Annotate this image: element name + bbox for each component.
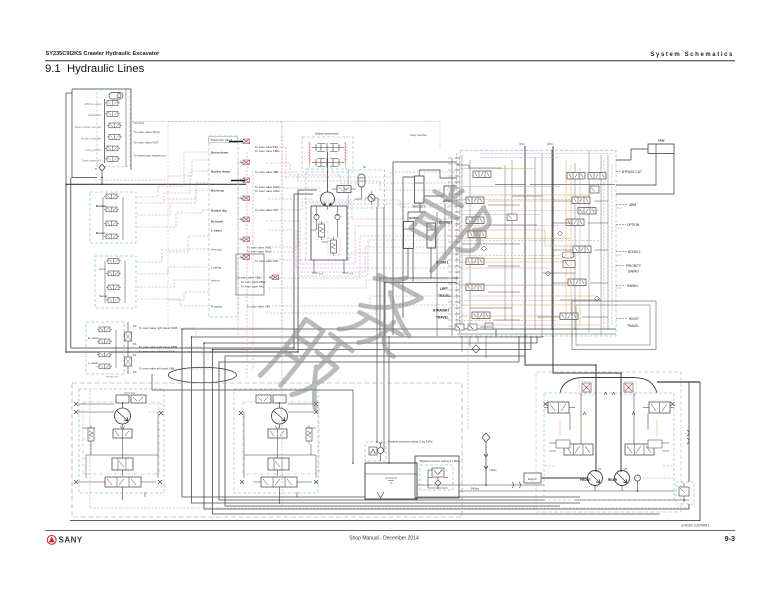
pump B circle: [272, 403, 288, 428]
svg-text:SWING: SWING: [628, 270, 639, 274]
svg-text:REAR: REAR: [608, 478, 618, 482]
anti-reverse relief A: [319, 221, 325, 240]
hose crossing arcs: [687, 430, 689, 444]
svg-text:To main valve 5b(p): To main valve 5b(p): [134, 130, 160, 134]
svg-text:A8V0 200: A8V0 200: [124, 392, 136, 395]
svg-text:SY235C9I2KS Crawler Hydraulic: SY235C9I2KS Crawler Hydraulic Excavator: [46, 51, 161, 57]
svg-text:To main valve PuP: To main valve PuP: [134, 141, 159, 145]
main valve spool boom2: [573, 246, 591, 253]
swing shaft vertical: [327, 152, 329, 192]
front servo spool: [549, 440, 593, 455]
rear servo spool: [625, 440, 669, 455]
travel cluster internal rail: [115, 330, 117, 368]
pink top row right block: [480, 154, 612, 158]
pilot mesh c1 line4: [137, 210, 209, 227]
svg-text:L swing: L swing: [211, 266, 221, 270]
svg-text:Boom: Boom: [96, 231, 105, 235]
main valve mid gallery horizontals: [457, 165, 615, 308]
main valve left port stubs: [455, 158, 461, 326]
pump A port X marks: [74, 402, 78, 406]
watermark char WU (affairs): [339, 263, 435, 364]
svg-text:swivel joint: swivel joint: [106, 375, 119, 379]
pump group A boundary: [79, 389, 164, 493]
svg-text:Swing priority: Swing priority: [85, 148, 101, 152]
bold pilot stub 2: [231, 180, 245, 182]
travel pump outer dash boundary: [536, 372, 681, 512]
swing casing red hatch right: [344, 142, 347, 167]
cluster1 pilot valves: [104, 194, 119, 199]
svg-text:System Schematics: System Schematics: [650, 52, 734, 58]
svg-text:P: P: [95, 167, 97, 171]
travel filter lower: [125, 357, 132, 366]
internal connect stubs: [488, 201, 608, 320]
svg-text:ARV line valve: ARV line valve: [84, 102, 101, 106]
right travel inner box: [576, 305, 650, 345]
swing motor circle: [321, 192, 335, 206]
main valve spool straight travel: [472, 312, 490, 319]
manifold internal vertical rail: [104, 99, 106, 163]
breather cyan box: [365, 442, 386, 461]
pilot mesh c2 line3: [137, 280, 209, 287]
travel cluster pilot valves: [97, 327, 112, 332]
travel pump bottom rails: [544, 481, 689, 500]
svg-text:P4: P4: [133, 342, 137, 346]
orange pilot gallery 4: [459, 284, 568, 286]
SANY logo emblem: [47, 536, 56, 545]
svg-text:PRIORITY: PRIORITY: [626, 264, 642, 268]
header rule: [45, 60, 735, 62]
watermark char BU (department): [394, 177, 498, 285]
svg-text:Bypass pressure setting 0.1 MP: Bypass pressure setting 0.1 MPa: [420, 459, 460, 463]
engine drive shaft: [541, 477, 588, 479]
svg-text:STRAIGHT: STRAIGHT: [433, 309, 449, 313]
secondary right vertical: [688, 382, 690, 509]
rail b to swing hose: [71, 347, 294, 349]
pilot return long bottom: [90, 507, 689, 509]
pump B bottom spool: [253, 477, 312, 487]
pilot mesh to valve 6: [268, 253, 457, 260]
svg-text:Swing mechanism: Swing mechanism: [315, 132, 340, 136]
tank return riser: [152, 336, 389, 463]
horizontal capsule boom2 aux: [562, 252, 574, 258]
priority valve small: [563, 261, 575, 268]
solenoid valve row 1: [105, 101, 120, 106]
svg-text:ARM: ARM: [629, 203, 636, 207]
bypass cyan box: [420, 465, 453, 490]
pilot mesh c1 line1: [137, 152, 209, 197]
main valve spool left travel: [466, 284, 484, 291]
svg-text:Arm out: Arm out: [211, 248, 222, 252]
orange pilot vertical a: [565, 160, 567, 320]
cluster2 pilot valves: [106, 259, 121, 264]
swing return lines to tank: [377, 207, 384, 452]
front pump circle: [588, 471, 603, 486]
footer rule: [45, 529, 735, 531]
solenoid valve row 6: [105, 157, 120, 162]
rear pump circle: [615, 471, 630, 486]
pump A port lines: [78, 404, 114, 428]
svg-text:To main valve left travel XAtL: To main valve left travel XAtL: [139, 350, 176, 354]
svg-text:To main valve XBb2: To main valve XBb2: [255, 149, 280, 153]
pump group A magenta box: [83, 402, 159, 474]
svg-text:L. travel: L. travel: [88, 361, 98, 365]
bold pilot stub 1: [229, 141, 243, 143]
small fitting cluster above cascade: [455, 324, 492, 330]
pilot mesh travel lines: [185, 328, 214, 369]
extra feed verticals: [437, 158, 452, 336]
svg-text:Shop Manual - December 2014: Shop Manual - December 2014: [349, 536, 419, 542]
pilot vertical bottom left: [89, 390, 91, 508]
svg-text:L travel: L travel: [211, 229, 222, 233]
pump B servo piston: [268, 458, 289, 470]
orange travel pump drops: [560, 416, 657, 440]
svg-text:Z4239-1309001: Z4239-1309001: [681, 523, 710, 528]
svg-text:Swing: Swing: [99, 294, 108, 298]
pilot cluster 1 boundary (bucket/boom): [90, 192, 136, 243]
svg-text:(P1): (P1): [519, 142, 525, 146]
svg-text:FRONT: FRONT: [580, 478, 591, 482]
pilot mesh to valve 2: [266, 172, 457, 190]
orange pilot gallery 5: [459, 315, 560, 317]
shuttle header box: [209, 137, 238, 143]
pilot vertical mid: [467, 336, 469, 430]
svg-text:Travel speed sW: Travel speed sW: [82, 159, 102, 163]
svg-text:ARM: ARM: [658, 139, 665, 143]
swing relief small circle: [368, 191, 375, 205]
solenoid valve row 4: [107, 135, 122, 140]
svg-text:To main valve XBa2: To main valve XBa2: [237, 276, 262, 280]
port relief right: [335, 214, 340, 223]
extra pilot meanders: [266, 163, 457, 183]
pump A drain down: [123, 487, 146, 500]
breather valve: [369, 442, 384, 461]
orange horizontals in valve: [460, 169, 600, 326]
pilot mesh to valve 7: [280, 268, 457, 278]
manifold feed vertical: [65, 93, 67, 184]
return rail vertical: [551, 150, 553, 330]
pump B top rects: [256, 395, 286, 403]
boom cylinder right: [427, 223, 436, 248]
svg-text:LEFT: LEFT: [440, 287, 448, 291]
port label marks: [448, 158, 453, 326]
bypass to travel pump line: [459, 490, 544, 492]
travel pump block arch: [560, 378, 657, 394]
pink rows in main valve: [460, 160, 612, 330]
pump B regulator valve: [268, 426, 287, 438]
travel hose cascade line 2: [192, 337, 581, 503]
shuttle valve block boundary: [209, 136, 238, 317]
svg-text:9-3: 9-3: [725, 534, 735, 543]
cluster1 internal rail: [103, 197, 123, 240]
extra small checks in main valve: [482, 231, 600, 301]
svg-text:R. travel: R. travel: [88, 336, 99, 340]
travel pair drops: [380, 278, 385, 336]
svg-text:BOOM 2: BOOM 2: [628, 250, 641, 254]
pump B port X marks: [314, 402, 318, 406]
inner gallery verticals: [462, 150, 608, 336]
svg-text:To main valve XBa2: To main valve XBa2: [241, 280, 266, 284]
svg-text:P2: P2: [133, 370, 137, 374]
left vertical rail a: [65, 184, 67, 352]
svg-text:Boom priority over soft: Boom priority over soft: [75, 125, 101, 129]
filter column: [482, 433, 490, 485]
main valve spool boom1: [466, 258, 484, 265]
pilot bottom travel links: [545, 466, 674, 478]
svg-text:Bucket lvl handle: Bucket lvl handle: [81, 137, 101, 141]
main valve spool right travel: [560, 313, 578, 320]
rear regulator: [643, 402, 675, 413]
port relief left: [314, 214, 319, 223]
orange pilot gallery 3: [459, 261, 563, 263]
small rect bottom left: [485, 323, 493, 329]
pilot bottom pump A links: [82, 404, 162, 440]
svg-text:To main valve XAs: To main valve XAs: [255, 259, 279, 263]
main valve spool option: [566, 219, 584, 226]
check diamond under manifold: [99, 164, 105, 184]
pilot cluster 2 boundary (arm/swing): [95, 256, 136, 308]
travel pump cyan boundary: [544, 393, 674, 500]
cascade feeders from main valve bottom: [496, 329, 543, 362]
cluster2 internal rail: [105, 261, 125, 303]
watermark char FU (serve): [260, 314, 354, 411]
pump B mid lines: [244, 412, 316, 478]
swivel joint ellipse: [168, 367, 236, 382]
svg-text:OPTION: OPTION: [627, 223, 640, 227]
svg-text:P3: P3: [133, 324, 137, 328]
svg-text:To main valve 3Aa2: To main valve 3Aa2: [247, 250, 272, 254]
solenoid valve row 2: [105, 112, 120, 117]
orange pilot gallery 2: [459, 230, 573, 246]
pump A mid lines: [86, 412, 158, 478]
swing hose vertical: [294, 190, 298, 352]
svg-text:Boom up: Boom up: [211, 189, 224, 193]
front pump pilot valve w/ red: [579, 381, 594, 395]
travel lines pair to main valve: [380, 278, 457, 283]
svg-text:R swing: R swing: [211, 305, 222, 309]
pump A relief capsule: [88, 425, 94, 444]
pump feed vertical P2: [552, 146, 554, 336]
swing motor cyan boundary: [306, 169, 348, 260]
hydraulic tank: [365, 463, 417, 499]
svg-text:Arm in: Arm in: [211, 279, 220, 283]
swing motor drain stubs: [312, 260, 348, 273]
pink verticals at valve left edge: [457, 153, 460, 333]
pump A circle: [115, 403, 131, 428]
svg-text:5b: 5b: [363, 165, 367, 169]
svg-text:To:Pu(t): To:Pu(t): [134, 121, 145, 125]
left feed vertical x403: [403, 177, 415, 318]
diagram bottom border: [70, 382, 700, 521]
svg-text:Boom down: Boom down: [211, 151, 228, 155]
pilot mesh to valve 8: [268, 296, 457, 306]
bottom right unit valve: [679, 483, 689, 502]
swing gear shaft upper: [312, 143, 344, 152]
pump P1 feed to front pump: [525, 336, 596, 365]
left vertical rail b: [70, 178, 72, 349]
ARM cylinder top right: [648, 144, 674, 154]
svg-text:RIGHT: RIGHT: [629, 317, 639, 321]
left feed vertical x393: [393, 162, 457, 335]
svg-text:To main valve Pa1: To main valve Pa1: [241, 285, 264, 289]
svg-text:BYPASS CUT: BYPASS CUT: [622, 170, 642, 174]
pump group B boundary: [234, 389, 318, 493]
svg-text:BUCKET: BUCKET: [413, 205, 426, 209]
svg-text:To main valve XBs: To main valve XBs: [247, 305, 271, 309]
main valve spool top left: [473, 171, 491, 178]
svg-text:P2: P2: [624, 467, 628, 471]
main valve spool arm2: [466, 197, 484, 204]
gauge circle: [635, 475, 641, 481]
pump feed vertical P1: [524, 146, 526, 336]
anti-reverse relief B: [331, 237, 337, 256]
svg-text:9.1 Hydraulic Lines: 9.1 Hydraulic Lines: [45, 63, 145, 75]
swing valve cyan boundary right: [349, 170, 385, 208]
pilot trunk vertical: [281, 122, 283, 506]
accumulator: [358, 174, 365, 193]
valve-to-travel check diamond: [472, 345, 480, 353]
pump group B magenta box: [243, 402, 319, 474]
rear pump pilot valve w/ red: [621, 381, 636, 395]
travel hose cascade line 3: [204, 343, 689, 509]
main valve bottom stub lines: [462, 336, 486, 358]
svg-text:Breather pressure setting: 0 k: Breather pressure setting: 0 kg 3 kPa: [388, 440, 433, 444]
svg-text:SWING: SWING: [627, 284, 638, 288]
front regulator: [544, 402, 576, 413]
travel filter upper: [125, 332, 132, 341]
pilot mesh to valve 5: [268, 240, 457, 276]
pilot drop cluster1: [238, 152, 253, 378]
right travel outer box: [572, 301, 656, 350]
pilot mesh to valve 3: [268, 188, 457, 207]
svg-text:Arm: Arm: [99, 267, 105, 271]
pump B port lines: [288, 404, 316, 428]
pump A servo piston: [112, 458, 133, 470]
pilot mesh to valve 4: [266, 202, 457, 219]
pump P2 feed to rear pump: [553, 336, 621, 373]
swing hose horizontal to motor: [294, 190, 317, 194]
travel hose cascade line 4: [213, 350, 660, 515]
svg-text:Sway switches: Sway switches: [410, 133, 428, 137]
swing brake valve: [332, 186, 356, 193]
main control valve cyan boundary: [460, 150, 616, 336]
travel pump inner risers: [570, 392, 648, 445]
travel pump main verticals: [596, 365, 621, 471]
pilot mesh c1 line2: [137, 171, 209, 203]
svg-text:P1: P1: [133, 353, 137, 357]
swing pilot connections: [344, 189, 378, 207]
svg-text:TRAVEL: TRAVEL: [436, 316, 449, 320]
pilot mesh c1 line3: [137, 190, 209, 215]
orange pilot gallery 1: [459, 200, 572, 201]
small comp under arm1: [578, 208, 596, 215]
pilot mesh c2 line1: [137, 249, 209, 262]
pilot manifold cyan boundary: [97, 90, 130, 167]
right thick riser: [657, 381, 700, 383]
swing mechanism boundary: [302, 137, 353, 172]
rail a to swing hose: [66, 351, 298, 353]
orange pilot vertical b: [570, 165, 572, 315]
main valve spool arm1: [572, 197, 590, 204]
bottom right unit cyan box: [676, 482, 694, 504]
pilot manifold block outer: [72, 89, 131, 178]
svg-text:TRAVEL: TRAVEL: [627, 324, 639, 328]
hose arcs on tank line: [512, 482, 521, 488]
orange right stubs: [616, 208, 622, 288]
pilot trunk line top: [132, 121, 282, 123]
tank outlet right: [417, 484, 544, 486]
manifold feed top: [66, 92, 72, 94]
svg-text:(P2): (P2): [547, 142, 553, 146]
svg-text:SANY: SANY: [59, 536, 83, 545]
lower machinery dash boundary: [72, 383, 462, 517]
bypass block box: [415, 456, 459, 498]
main valve spool bucket: [466, 217, 484, 224]
pump B drain down: [280, 487, 298, 504]
svg-text:Air/heat dry: Air/heat dry: [88, 113, 102, 117]
pilot mesh c2 line4: [137, 299, 209, 306]
bucket cylinder: [415, 170, 425, 203]
svg-text:Rt travel: Rt travel: [211, 220, 223, 224]
accumulator capsule: [109, 93, 123, 100]
svg-text:-340kpa: -340kpa: [470, 488, 480, 491]
engine box: [524, 473, 541, 483]
solenoid valve row 3: [107, 123, 122, 128]
small valve mid: [507, 214, 517, 221]
swing gear shaft lower: [312, 158, 344, 167]
travel hose cascade line 6: [219, 362, 545, 500]
travel hose cascade line 1: [182, 329, 616, 497]
bypass check valve: [428, 468, 448, 489]
pilot mesh to valve 1: [268, 147, 457, 177]
shuttle valve icons column: [240, 139, 250, 144]
main valve bottom rail: [457, 333, 616, 335]
swing motor housing box: [311, 206, 347, 260]
svg-text:To main valve left travel XBtL: To main valve left travel XBtL: [139, 367, 176, 371]
swing motor internal lines: [311, 206, 338, 242]
svg-text:Bucket: Bucket: [96, 204, 106, 208]
travel pilot filter line: [127, 322, 129, 374]
svg-text:To main valve right travel XAt: To main valve right travel XAtR: [139, 326, 177, 330]
svg-text:to A: to A: [319, 273, 324, 276]
ARM cylinder hoses: [616, 149, 674, 194]
pump A bottom spool: [97, 477, 156, 487]
solenoid valve row 5: [105, 146, 120, 151]
cylinder hoses: [408, 170, 457, 282]
main valve spool aux: [468, 231, 486, 238]
boom cylinder left: [404, 222, 414, 249]
left supply rail horizontal upper: [66, 183, 245, 185]
pale red pilot region box: [168, 122, 440, 329]
right port stubs: [616, 172, 628, 319]
travel pedal cluster boundary: [86, 322, 124, 374]
main valve spool swing: [568, 279, 586, 286]
svg-text:To main valve XAb2: To main valve XAb2: [255, 189, 280, 193]
main valve spool top right b: [588, 173, 606, 180]
svg-text:P1: P1: [598, 467, 602, 471]
right spool bypass: [590, 186, 599, 193]
svg-text:to B: to B: [349, 273, 354, 276]
pump B relief capsule: [306, 425, 312, 444]
svg-text:To travel pilot signal port: To travel pilot signal port: [134, 154, 167, 158]
travel hose cascade line 5: [225, 356, 560, 506]
pilot mesh c2 line2: [137, 267, 209, 274]
pump A regulator valve: [113, 426, 132, 438]
svg-text:3.0kpa: 3.0kpa: [489, 469, 497, 472]
svg-text:Bucket dump: Bucket dump: [211, 170, 230, 174]
main valve spool top right a: [567, 173, 585, 180]
swing casing red hatch left: [308, 142, 311, 167]
pump A top rects: [116, 395, 146, 403]
